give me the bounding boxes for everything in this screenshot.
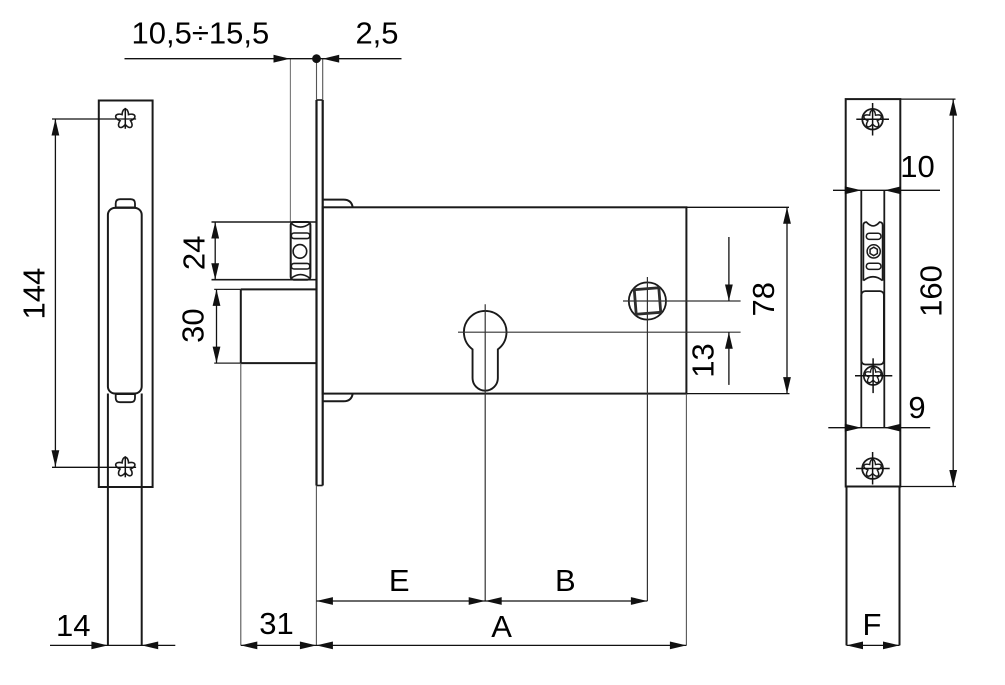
middle faceplate strip [317,100,323,486]
keyhole vertical centerline [484,304,486,601]
svg-text:14: 14 [56,608,90,643]
dimension 10,5-15,5 line [125,55,402,63]
svg-text:30: 30 [175,308,210,342]
roller unit pin upper [866,233,881,239]
spindle vertical centerline [646,277,648,601]
left view bottom screw star [52,456,136,477]
dimension 2,5 arrow [323,55,340,63]
dimension F text [863,607,882,642]
svg-text:13: 13 [685,343,720,377]
case bottom tab [323,394,353,402]
roller latch pin lower [291,263,310,269]
spindle circle [629,282,666,319]
left view latch slot [108,208,142,394]
dimension 13 text [685,343,720,377]
dimension 24 text [177,236,212,270]
svg-text:10,5÷15,5: 10,5÷15,5 [132,16,270,51]
dimension 30 line [213,289,221,363]
right view channel lines [861,190,884,427]
left view case edge lines [108,394,142,646]
plate top edge extension [900,98,955,100]
svg-text:A: A [491,609,512,644]
extension line roller tip [289,59,291,222]
dimension 10 line [833,186,940,194]
spindle horizontal centerline [623,300,741,302]
svg-text:9: 9 [908,390,925,425]
extension line faceplate bottom [315,486,317,646]
dimension 31-A line [241,642,687,650]
dimension 13 lower leg [725,332,733,385]
left view faceplate plate [99,101,153,488]
dimension F line [847,642,900,650]
dimension A text [491,609,512,644]
roller latch roller circle [293,245,307,259]
deadbolt left edge [240,289,242,363]
extension lines faceplate top [317,59,323,100]
euro cylinder keyhole [464,311,507,391]
dimension 9 text [908,390,925,425]
plate bottom edge extension [900,486,956,488]
case bottom edge extension [686,393,789,395]
deadbolt bottom edge [214,362,316,364]
dimension 9 line [828,424,930,432]
roller latch pin upper [291,233,310,239]
left view top screw star [52,108,136,129]
dimension 10 text [900,149,934,184]
roller latch bottom arc [291,275,310,279]
dimension E-B line [316,597,647,605]
deadbolt top edge [214,288,316,290]
svg-text:F: F [863,607,882,642]
dimension E text [389,563,410,598]
svg-text:B: B [555,563,576,598]
svg-text:78: 78 [746,282,781,316]
left view latch bottom bump [116,394,135,403]
dimension 144 text [16,268,51,320]
svg-text:E: E [389,563,410,598]
case top tab [323,200,353,208]
roller unit hex socket [870,247,877,255]
dimension 30 text [175,308,210,342]
top screw [856,103,889,136]
dimension 10,5-15,5 text [132,16,270,51]
dimension 13 upper leg [725,237,733,301]
case right edge extension [685,394,687,646]
svg-text:2,5: 2,5 [355,16,398,51]
svg-text:24: 24 [177,236,212,270]
svg-text:160: 160 [913,265,948,317]
deadbolt extension line [240,363,242,645]
keyhole horizontal centerline [458,331,741,333]
dimension 160 text [913,265,948,317]
channel screw [855,358,892,393]
dimension 2,5 text [355,16,398,51]
left view latch top bump [116,199,135,208]
dimension 14 text [56,608,90,643]
dimension 24 line [211,222,219,280]
right view plate [846,99,901,486]
roller latch body [291,222,311,280]
roller unit outline [863,222,882,281]
svg-text:10: 10 [900,149,934,184]
svg-text:31: 31 [259,606,293,641]
spindle square [634,288,660,314]
svg-text:144: 144 [16,268,51,320]
dimension 78 text [746,282,781,316]
dimension endpoint dot [312,54,321,63]
dimension 144 line [52,119,60,467]
roller latch top arc [291,223,310,227]
dimension B text [555,563,576,598]
roller unit pin lower [866,263,881,269]
dimension 160 line [949,99,957,486]
latch guide lines [212,222,317,280]
lock case body [323,207,687,393]
dimension 31 text [259,606,293,641]
case top edge extension [686,206,789,208]
dimension 14 line [50,642,175,650]
roller unit screw circle [867,245,880,258]
bottom screw [856,452,890,485]
right view case edge lines [847,487,900,646]
dimension 78 line [783,207,791,393]
right view lower cutout [861,291,884,364]
